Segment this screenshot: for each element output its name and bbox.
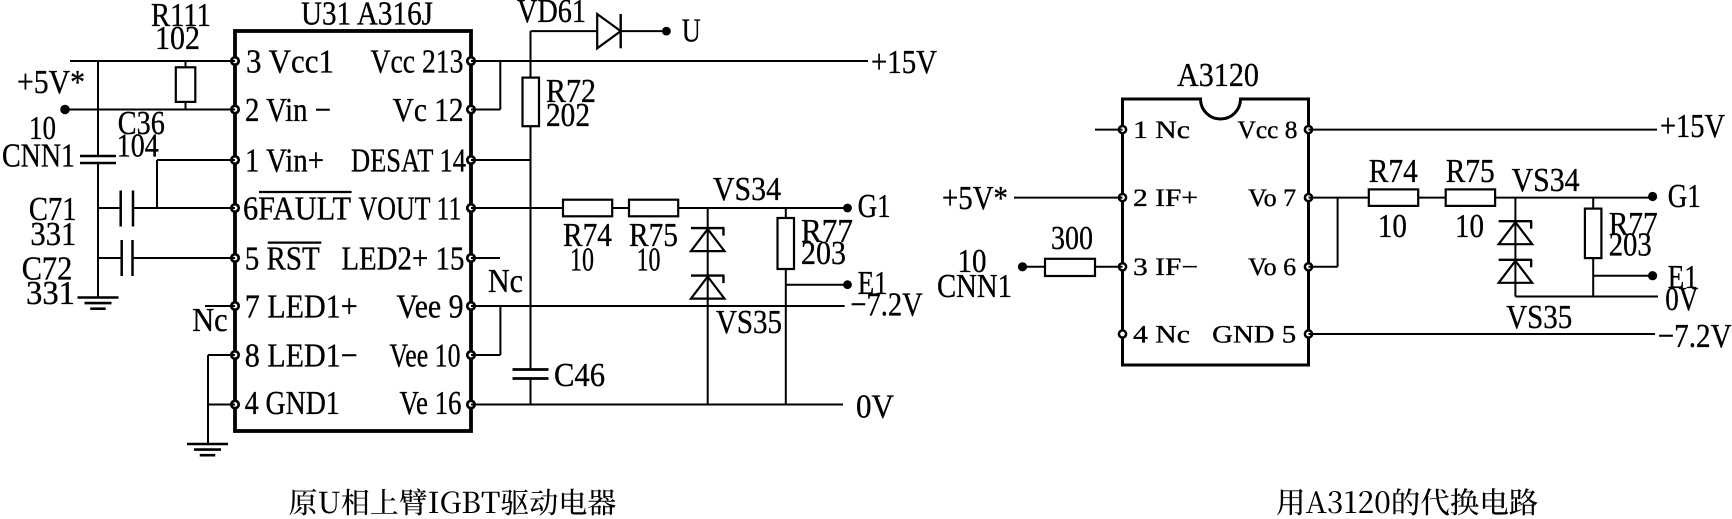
wire pin 15 Nc stub: [471, 257, 500, 259]
pin 6 FAULT (active low): [231, 191, 351, 228]
svg-text:VOUT 11: VOUT 11: [359, 191, 462, 228]
resistor R74 10: [563, 200, 612, 279]
svg-text:Nc: Nc: [488, 263, 523, 300]
pin 4 GND1: [231, 385, 339, 422]
svg-text:LED2+ 15: LED2+ 15: [341, 241, 464, 278]
wire Nc stub pin 7: [205, 305, 235, 307]
svg-text:202: 202: [546, 97, 590, 134]
svg-text:G1: G1: [858, 188, 891, 225]
svg-text:+15V: +15V: [1660, 108, 1725, 145]
pin 4 Nc: [1119, 321, 1190, 348]
svg-text:1 Nc: 1 Nc: [1133, 117, 1190, 144]
pin 15 LED2+: [341, 241, 474, 278]
svg-text:4 Nc: 4 Nc: [1133, 321, 1190, 348]
wire +5V* to pin 2: [1014, 197, 1123, 199]
svg-text:3 Vcc1: 3 Vcc1: [246, 44, 334, 81]
svg-text:3 IF−: 3 IF−: [1133, 254, 1198, 281]
svg-text:VS34: VS34: [713, 171, 781, 208]
svg-text:4 GND1: 4 GND1: [245, 385, 340, 422]
svg-text:VS35: VS35: [716, 304, 782, 341]
op-amp A3120 IC body: [1123, 57, 1309, 365]
svg-text:102: 102: [155, 20, 200, 57]
svg-text:Vee 10: Vee 10: [390, 338, 461, 375]
wire Vcc8 +15V line: [1309, 129, 1658, 131]
svg-text:R75: R75: [1446, 153, 1495, 190]
svg-text:Nc: Nc: [192, 302, 228, 339]
node G1 right: [1648, 192, 1657, 201]
svg-text:DESAT 14: DESAT 14: [351, 143, 466, 180]
svg-text:10: 10: [570, 242, 594, 279]
svg-text:Vcc 8: Vcc 8: [1238, 117, 1298, 144]
svg-text:2 Vin −: 2 Vin −: [245, 92, 331, 129]
resistor R77 203 right: [1585, 198, 1658, 264]
pin 8 LED1-: [231, 338, 357, 375]
svg-text:1 Vin+: 1 Vin+: [245, 143, 324, 180]
pin 7 LED1+: [231, 289, 357, 326]
wire R75 to G1 right: [1495, 197, 1653, 199]
svg-text:C46: C46: [554, 357, 605, 394]
wire rail below C36 to ground: [97, 164, 99, 297]
svg-text:10: 10: [1455, 208, 1484, 245]
pin 3 Vcc1: [231, 44, 334, 81]
svg-text:−7.2V: −7.2V: [1658, 318, 1732, 355]
svg-text:CNN1: CNN1: [937, 268, 1012, 305]
wire GND5 -7.2V line: [1309, 333, 1656, 335]
wire pin 1 jog down to FAULT net: [157, 159, 235, 161]
svg-text:0V: 0V: [856, 389, 894, 426]
svg-text:U: U: [682, 13, 701, 50]
pin 11 VOUT: [359, 191, 475, 228]
node E1: [843, 280, 852, 289]
wire pin 14 DESAT stub: [471, 159, 531, 161]
op-amp U31 A316J IC body: [235, 0, 471, 431]
wire pin 10 jog to pin 9 net: [471, 354, 500, 356]
pin 5 RST (active low): [231, 241, 321, 278]
caption: original U-phase upper-arm IGBT driver: [290, 488, 616, 515]
svg-text:E1: E1: [1668, 259, 1698, 296]
wire VD61 anode down to R72: [530, 31, 532, 78]
svg-text:GND 5: GND 5: [1212, 321, 1296, 348]
wire 0V line right: [1515, 296, 1658, 298]
wire Vee pin 9 line -7.2V: [471, 305, 845, 307]
resistor R75 10 right: [1446, 153, 1495, 245]
node CNN1 pin 10 dot right: [1018, 262, 1027, 271]
ground below pin 4: [187, 443, 228, 446]
wire C46 bottom to 0V line: [530, 380, 532, 405]
svg-text:U31 A316J: U31 A316J: [301, 0, 433, 33]
zener VS34 right: [1499, 162, 1580, 297]
wire pin 4 stub: [208, 404, 235, 406]
svg-text:CNN1: CNN1: [2, 138, 75, 175]
svg-text:6FAULT: 6FAULT: [243, 191, 351, 228]
svg-text:10: 10: [637, 242, 661, 279]
svg-text:G1: G1: [1668, 178, 1701, 215]
svg-text:203: 203: [801, 235, 846, 272]
svg-text:331: 331: [26, 275, 75, 312]
pin 14 DESAT: [351, 143, 475, 180]
svg-text:R74: R74: [1369, 153, 1418, 190]
wire Ve pin 16 0V line: [471, 404, 843, 406]
wire CNN1 to pin 2: [65, 109, 235, 111]
node CNN1 pin 10 input dot: [60, 105, 70, 115]
pin 5 GND: [1212, 321, 1312, 348]
node U output dot: [662, 27, 671, 36]
svg-text:Vcc 213: Vcc 213: [371, 44, 464, 81]
wire pin 1 stub: [1095, 129, 1123, 131]
capacitor C71 331: [29, 191, 133, 254]
svg-text:7 LED1+: 7 LED1+: [245, 289, 358, 326]
pin 12 Vc: [393, 92, 475, 129]
capacitor C46: [513, 357, 606, 394]
diode VD61: [517, 0, 662, 48]
ground below rail: [78, 296, 119, 299]
resistor R77 203: [778, 208, 854, 272]
pin 10 Vee: [390, 338, 475, 375]
resistor R111 102: [151, 0, 211, 110]
svg-text:VD61: VD61: [517, 0, 586, 30]
svg-text:8 LED1−: 8 LED1−: [245, 338, 358, 375]
wire Vo6 bracket to Vo7: [1309, 266, 1338, 268]
wire R75 to G1 dot: [678, 207, 847, 209]
resistor R72 202: [523, 73, 597, 134]
svg-text:A3120: A3120: [1177, 57, 1259, 94]
resistor R74 10 right: [1369, 153, 1418, 245]
wire E1 branch: [786, 284, 848, 286]
pin 9 Vee: [397, 289, 475, 326]
zener VS34: [691, 171, 781, 405]
wire C71 to pin 6: [134, 207, 235, 209]
wire pin 8 jog: [208, 354, 235, 356]
capacitor C36 104: [80, 105, 165, 164]
wire R72 bottom down to C46: [530, 126, 532, 369]
svg-text:203: 203: [1609, 227, 1652, 264]
svg-text:2 IF+: 2 IF+: [1133, 185, 1198, 212]
wire pin 12 jog to +15V rail: [471, 109, 500, 111]
pin 13 Vcc2: [371, 44, 475, 81]
svg-text:VS34: VS34: [1512, 162, 1580, 199]
svg-text:Vo 7: Vo 7: [1248, 185, 1296, 212]
zener VS35 right: [1499, 260, 1573, 336]
pin 7 Vo: [1248, 185, 1312, 212]
svg-text:5 RST: 5 RST: [245, 241, 320, 278]
svg-text:+15V: +15V: [871, 44, 937, 81]
svg-text:10: 10: [1378, 208, 1407, 245]
capacitor C72 331: [22, 240, 133, 312]
pin 2 IF+: [1119, 185, 1198, 212]
wire R77 bottom down to 0V: [785, 269, 787, 405]
pin 8 Vcc: [1238, 117, 1313, 144]
svg-text:−7.2V: −7.2V: [850, 287, 923, 324]
wire +15V rail from pin 13: [471, 60, 868, 62]
svg-text:104: 104: [117, 127, 159, 164]
pin 1 Vin+: [231, 143, 324, 180]
wire C72 to pin 5: [134, 257, 236, 259]
wire R74 to R75: [612, 207, 629, 209]
wire VOUT pin 11 to R74: [471, 207, 563, 209]
node E1 right: [1648, 271, 1657, 280]
pin 2 Vin-: [231, 92, 331, 129]
svg-text:Vee 9: Vee 9: [397, 289, 464, 326]
svg-text:+5V*: +5V*: [942, 180, 1008, 217]
node G1: [843, 204, 852, 213]
pin 3 IF-: [1119, 254, 1198, 281]
wire R77 bottom to 0V right: [1592, 258, 1594, 296]
wire Vo7 to R74: [1309, 197, 1369, 199]
pin 1 Nc: [1119, 117, 1190, 144]
wire E1 branch right: [1593, 275, 1652, 277]
svg-text:300: 300: [1051, 220, 1093, 257]
wire +5V stub to pin 3: [70, 60, 235, 62]
pin 16 Ve: [400, 385, 475, 422]
wire 300 to pin 3: [1095, 266, 1123, 268]
svg-text:331: 331: [30, 216, 76, 253]
resistor R75 10: [629, 200, 678, 279]
svg-text:+5V*: +5V*: [17, 64, 85, 101]
caption: replacement circuit using A3120: [1277, 488, 1538, 515]
svg-text:VS35: VS35: [1506, 299, 1572, 336]
svg-text:Vc 12: Vc 12: [393, 92, 464, 129]
svg-text:Vo 6: Vo 6: [1248, 254, 1296, 281]
svg-text:Ve 16: Ve 16: [400, 385, 462, 422]
pin 6 Vo: [1248, 254, 1312, 281]
wire vertical rail from +5V line down to C36: [97, 61, 99, 155]
wire R74 to R75 right: [1418, 197, 1446, 199]
zener VS35: [691, 276, 782, 341]
resistor 300: [1023, 220, 1096, 276]
